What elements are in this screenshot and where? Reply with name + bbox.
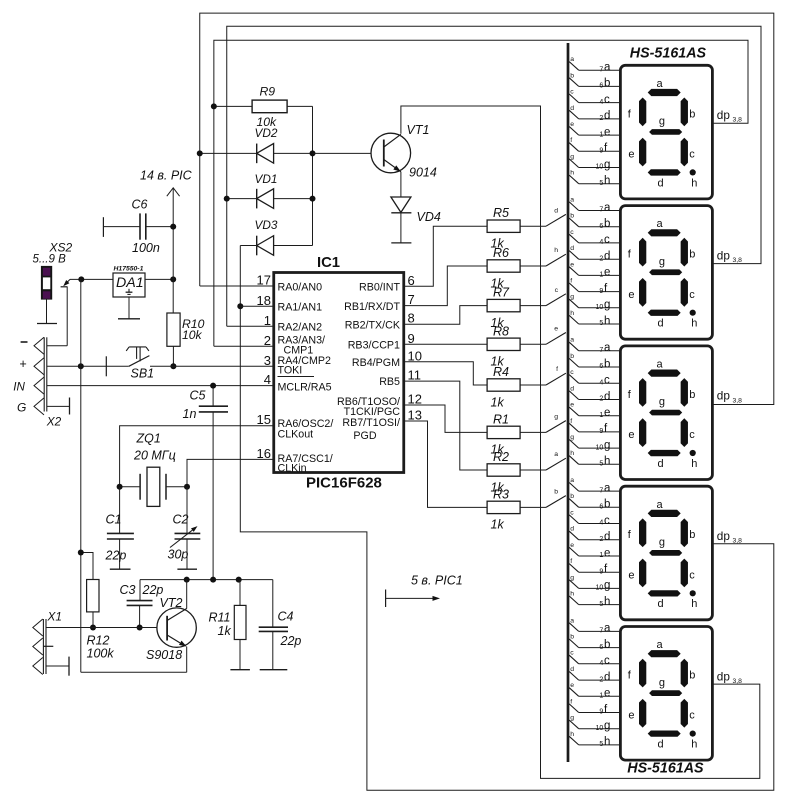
wire pin16 loop to crystal right <box>187 459 274 486</box>
junction VT2 collector / rail <box>184 577 190 583</box>
svg-text:1n: 1n <box>183 407 197 421</box>
svg-text:e: e <box>604 547 610 559</box>
svg-text:2: 2 <box>264 333 271 348</box>
IC U1 box <box>274 273 404 473</box>
wire pin4/IN row (X2 to IC) <box>47 385 274 387</box>
capacitor C2 (trimmer) <box>186 487 188 534</box>
svg-text:VT2: VT2 <box>160 596 183 610</box>
ground bar (X2 G pin) <box>69 398 71 415</box>
plug switch contact arrow <box>65 279 70 284</box>
display HS4 segment f <box>639 518 646 547</box>
display HS1 segment b <box>681 98 688 127</box>
svg-text:VT1: VT1 <box>407 123 430 137</box>
svg-text:6: 6 <box>599 83 603 90</box>
svg-text:8: 8 <box>408 311 415 326</box>
svg-text:e: e <box>570 121 574 128</box>
svg-text:15: 15 <box>257 412 271 427</box>
pin 2 (d) display HS5 <box>579 679 621 681</box>
svg-text:9: 9 <box>599 568 603 575</box>
svg-text:g: g <box>570 294 574 301</box>
svg-text:e: e <box>604 267 610 279</box>
svg-text:14 в. PIC: 14 в. PIC <box>140 169 193 183</box>
pin 6 (b) display HS4 <box>579 506 621 508</box>
svg-text:3,8: 3,8 <box>733 538 743 545</box>
svg-text:f: f <box>570 278 572 285</box>
svg-text:10: 10 <box>596 304 604 311</box>
svg-text:h: h <box>691 177 697 189</box>
svg-text:e: e <box>604 407 610 419</box>
svg-text:XS2: XS2 <box>49 241 73 255</box>
wire plug contact to minus pin <box>66 287 68 346</box>
display HS4 segment a <box>648 510 681 517</box>
svg-text:5...9 В: 5...9 В <box>33 254 67 266</box>
svg-text:b: b <box>604 358 610 370</box>
resistor R1 <box>487 426 520 438</box>
transistor VT2 <box>157 608 196 647</box>
svg-text:R5: R5 <box>493 206 509 220</box>
svg-text:c: c <box>555 287 559 294</box>
pin 10 (g) display HS3 <box>579 447 621 449</box>
display HS3 segment c <box>681 418 688 447</box>
svg-text:a: a <box>604 202 611 214</box>
pin X2 IN <box>34 377 44 394</box>
wire R3 tap diagonal <box>546 496 566 508</box>
display HS1 (HS-5161AS) body <box>620 65 712 199</box>
svg-text:a: a <box>604 623 611 635</box>
resistor R12 <box>81 553 93 580</box>
svg-text:c: c <box>689 289 695 301</box>
svg-text:7: 7 <box>599 628 603 635</box>
svg-text:e: e <box>628 429 634 441</box>
svg-text:a: a <box>604 342 611 354</box>
svg-text:b: b <box>554 489 558 496</box>
svg-text:10: 10 <box>596 164 604 171</box>
display HS1 segment d <box>648 169 681 175</box>
display HS3 segment a <box>648 370 681 377</box>
svg-text:R9: R9 <box>260 85 276 99</box>
display HS5 segment a <box>648 650 681 657</box>
display HS3 segment g <box>649 410 682 416</box>
wire pin18 (from VD3 junction) <box>240 305 273 307</box>
junction VD2-right / R9 net <box>310 150 316 156</box>
svg-text:a: a <box>570 477 574 484</box>
svg-text:f: f <box>570 558 572 565</box>
svg-text:d: d <box>570 105 574 112</box>
svg-text:e: e <box>570 682 574 689</box>
svg-text:1k: 1k <box>218 624 232 638</box>
resistor R6 <box>487 260 520 272</box>
svg-text:e: e <box>628 710 634 722</box>
svg-text:9: 9 <box>599 288 603 295</box>
svg-text:5: 5 <box>599 180 603 187</box>
svg-text:g: g <box>659 116 665 128</box>
pin 4 (c) display HS4 <box>579 523 621 525</box>
svg-text:3: 3 <box>264 353 271 368</box>
svg-text:h: h <box>604 175 610 187</box>
svg-text:d: d <box>570 526 574 533</box>
svg-text:5 в. PIC1: 5 в. PIC1 <box>411 574 463 588</box>
svg-text:h: h <box>691 598 697 610</box>
pin 5 (h) display HS3 <box>579 463 621 465</box>
junction R12 branch / +rail <box>78 550 84 556</box>
svg-text:e: e <box>628 149 634 161</box>
svg-text:X2: X2 <box>46 414 62 428</box>
junction R11 / rail <box>236 577 242 583</box>
svg-text:e: e <box>604 688 610 700</box>
display HS2 segment b <box>681 238 688 267</box>
svg-text:h: h <box>691 739 697 751</box>
connector X2 body <box>43 337 45 411</box>
svg-text:b: b <box>570 634 574 641</box>
svg-text:IN: IN <box>13 381 25 394</box>
svg-text:d: d <box>658 739 664 751</box>
svg-text:4: 4 <box>264 372 271 387</box>
svg-text:6: 6 <box>599 644 603 651</box>
svg-text:b: b <box>604 218 610 230</box>
display HS1 segment e <box>639 138 646 167</box>
svg-text:11: 11 <box>408 368 422 383</box>
resistor R7 <box>487 299 520 311</box>
ground bar (C2) <box>177 568 197 570</box>
svg-text:VD4: VD4 <box>417 210 441 224</box>
wire R7 tap diagonal <box>546 294 566 306</box>
svg-text:h: h <box>604 315 610 327</box>
svg-text:1k: 1k <box>491 395 505 409</box>
svg-text:g: g <box>554 414 558 421</box>
ground bar (VD4) <box>391 242 411 244</box>
svg-text:9: 9 <box>599 709 603 716</box>
pin X1 middle <box>33 638 43 655</box>
svg-text:h: h <box>604 456 610 468</box>
svg-text:1: 1 <box>264 313 271 328</box>
svg-text:h: h <box>554 247 558 254</box>
wire net RA1/dp4 (VD3 - pin18 - bottom frame - display4 common) <box>240 246 774 791</box>
display HS2 segment d <box>648 310 681 316</box>
wire VT2 emitter to bottom <box>186 647 188 673</box>
pin 4 (c) display HS2 <box>579 242 621 244</box>
wire R6 tap diagonal <box>546 254 566 266</box>
svg-text:18: 18 <box>257 293 271 308</box>
junction VD2-left / RA0 line <box>197 150 203 156</box>
svg-text:R3: R3 <box>493 487 509 501</box>
svg-text:a: a <box>570 337 574 344</box>
svg-text:b: b <box>689 249 695 261</box>
svg-text:e: e <box>570 542 574 549</box>
display HS3 segment f <box>639 378 646 407</box>
connector XS2 plug body <box>41 266 52 300</box>
svg-text:d: d <box>604 531 610 543</box>
svg-text:HS-5161AS: HS-5161AS <box>630 45 707 61</box>
display HS5 (HS-5161AS) body <box>620 627 712 761</box>
junction crystal-left / pin15 loop <box>117 484 123 490</box>
svg-text:VD1: VD1 <box>255 172 278 186</box>
wire pin3 row (SB1 to IC) <box>173 365 273 367</box>
svg-text:c: c <box>570 509 574 516</box>
svg-text:h: h <box>570 591 574 598</box>
svg-text:h: h <box>570 170 574 177</box>
svg-text:X1: X1 <box>47 610 62 624</box>
junction DA1 input / +rail <box>78 276 84 282</box>
switch SB1 <box>105 356 107 376</box>
svg-text:9: 9 <box>408 331 415 346</box>
svg-text:R12: R12 <box>87 634 110 648</box>
svg-text:b: b <box>604 639 610 651</box>
pin 7 (a) display HS4 <box>579 490 621 492</box>
display HS1 segment dot h <box>690 169 696 175</box>
svg-text:f: f <box>570 137 572 144</box>
ground bar (DA1) <box>118 318 140 320</box>
svg-text:RA0/AN0: RA0/AN0 <box>278 281 323 293</box>
wire pin10 to R4 <box>404 362 487 385</box>
svg-text:d: d <box>604 110 610 122</box>
svg-text:100k: 100k <box>87 647 115 661</box>
wire DA1 ground lead <box>128 297 130 319</box>
svg-text:f: f <box>556 366 558 373</box>
svg-text:d: d <box>658 318 664 330</box>
display HS4 segment dot h <box>690 590 696 596</box>
pin 2 (d) display HS4 <box>579 539 621 541</box>
svg-text:b: b <box>570 72 574 79</box>
display HS2 (HS-5161AS) body <box>620 206 712 340</box>
display HS3 segment e <box>639 418 646 447</box>
svg-text:b: b <box>689 670 695 682</box>
svg-text:22p: 22p <box>105 549 127 563</box>
display HS3 segment dot h <box>690 450 696 456</box>
wire R1 tap diagonal <box>546 421 566 433</box>
display HS2 segment g <box>649 269 682 275</box>
pin 6 (b) display HS5 <box>579 647 621 649</box>
pin 5 (h) display HS1 <box>579 183 621 185</box>
pin 10 (g) display HS5 <box>579 728 621 730</box>
svg-text:g: g <box>604 299 610 311</box>
wire net RA2/dp2 (pin1 - top frame - display2 common) <box>227 26 761 326</box>
wire XS2 pin lead <box>46 299 48 324</box>
svg-text:a: a <box>570 56 574 63</box>
wire pin7 to R6 <box>404 266 487 306</box>
svg-text:4: 4 <box>599 520 603 527</box>
junction DA1 output / 14v rail <box>170 276 176 282</box>
resistor R2 <box>487 464 520 476</box>
svg-text:e: e <box>628 289 634 301</box>
pin 9 (f) display HS1 <box>579 150 621 152</box>
display HS2 segment e <box>639 278 646 307</box>
svg-text:c: c <box>570 369 574 376</box>
svg-text:a: a <box>657 78 664 90</box>
resistor R11 <box>239 580 241 606</box>
ground bar (X1) <box>68 657 70 676</box>
svg-text:6: 6 <box>599 363 603 370</box>
svg-text:RB4/PGM: RB4/PGM <box>352 357 400 369</box>
ground bar (R11) <box>230 669 250 671</box>
svg-text:H17550-1: H17550-1 <box>114 265 144 272</box>
svg-text:10: 10 <box>596 585 604 592</box>
pin name MCLR/RA5 with overline <box>278 376 315 378</box>
svg-text:3,8: 3,8 <box>733 117 743 124</box>
pin 9 (f) display HS4 <box>579 571 621 573</box>
svg-text:b: b <box>570 213 574 220</box>
pin 5 (h) display HS2 <box>579 323 621 325</box>
svg-text:TOKI: TOKI <box>278 365 303 377</box>
svg-text:a: a <box>657 639 664 651</box>
svg-text:7: 7 <box>599 66 603 73</box>
svg-text:a: a <box>604 62 611 74</box>
svg-text:G: G <box>17 400 26 414</box>
display HS2 segment dot h <box>690 310 696 316</box>
svg-text:1: 1 <box>599 693 603 700</box>
svg-text:2: 2 <box>599 536 603 543</box>
pin X2 minus <box>34 337 44 354</box>
display HS5 segment c <box>681 699 688 728</box>
junction VD1-right / R9 net <box>310 196 316 202</box>
svg-text:e: e <box>554 326 558 333</box>
svg-text:R1: R1 <box>493 412 509 426</box>
svg-text:g: g <box>570 434 574 441</box>
svg-text:5: 5 <box>599 741 603 748</box>
svg-text:b: b <box>570 353 574 360</box>
svg-text:c: c <box>570 650 574 657</box>
wire pin13 to R3 <box>404 421 487 507</box>
svg-text:h: h <box>691 458 697 470</box>
svg-text:R6: R6 <box>493 246 509 260</box>
wire XS2 contact to DA1 input <box>70 278 113 280</box>
svg-text:d: d <box>570 385 574 392</box>
diode VD1 <box>227 198 257 200</box>
svg-text:dp: dp <box>717 669 731 683</box>
pin 10 (g) display HS4 <box>579 587 621 589</box>
svg-text:6: 6 <box>408 273 415 288</box>
diode VD3 <box>240 245 256 247</box>
display HS2 segment c <box>681 278 688 307</box>
svg-text:1k: 1k <box>491 518 505 532</box>
display HS5 segment dot h <box>690 731 696 737</box>
svg-text:b: b <box>689 389 695 401</box>
svg-text:g: g <box>604 580 610 592</box>
svg-text:1: 1 <box>599 552 603 559</box>
pin 2 (d) display HS2 <box>579 258 621 260</box>
svg-text:10: 10 <box>596 444 604 451</box>
svg-text:7: 7 <box>599 207 603 214</box>
svg-text:R11: R11 <box>209 611 231 625</box>
svg-text:10k: 10k <box>182 328 203 342</box>
svg-text:5: 5 <box>599 601 603 608</box>
ground glyph inside DA1 <box>128 289 130 292</box>
svg-text:c: c <box>604 94 610 106</box>
svg-text:4: 4 <box>599 239 603 246</box>
svg-text:22p: 22p <box>142 583 164 597</box>
svg-text:R2: R2 <box>493 450 509 464</box>
svg-text:c: c <box>689 710 695 722</box>
connector X1 body <box>42 619 44 674</box>
svg-text:a: a <box>570 617 574 624</box>
svg-text:c: c <box>689 429 695 441</box>
display HS5 segment f <box>639 659 646 688</box>
svg-text:C1: C1 <box>106 513 122 527</box>
svg-text:9: 9 <box>599 428 603 435</box>
svg-text:+: + <box>19 357 26 371</box>
wire pin1 (to RA2 line) <box>227 325 274 327</box>
display HS5 segment e <box>639 699 646 728</box>
junction +rail / X2 plus row <box>78 363 84 369</box>
svg-text:d: d <box>658 598 664 610</box>
svg-text:2: 2 <box>599 115 603 122</box>
svg-text:4: 4 <box>599 379 603 386</box>
svg-text:DA1: DA1 <box>116 275 144 291</box>
junction R12 / X1 row <box>90 625 96 631</box>
display HS5 segment d <box>648 731 681 737</box>
display HS4 segment c <box>681 559 688 588</box>
svg-text:dp: dp <box>717 108 731 122</box>
wire net VT1-collector/dp5 (bottom frame - display5 common) <box>401 106 760 778</box>
wire net RA3/dp1 (pin2 - top frame - display1 common) <box>214 40 748 346</box>
svg-text:C6: C6 <box>132 198 148 212</box>
svg-text:1: 1 <box>599 272 603 279</box>
svg-text:a: a <box>657 359 664 371</box>
wire pin8 to R7 <box>404 306 487 325</box>
capacitor C1 <box>119 487 121 534</box>
pin 1 (e) display HS5 <box>579 695 621 697</box>
wire net RA0/dp3 (pin17 - top frame - display3 common) <box>200 13 774 404</box>
svg-text:20 МГц: 20 МГц <box>133 449 176 463</box>
capacitor C6 <box>102 217 104 237</box>
svg-text:e: e <box>628 569 634 581</box>
pin 5 (h) display HS5 <box>579 744 621 746</box>
pin 7 (a) display HS1 <box>579 69 621 71</box>
junction C5 / rail <box>210 577 216 583</box>
wire segment bus <box>567 43 570 762</box>
svg-text:PGD: PGD <box>353 430 376 442</box>
junction VD3 / pin18 wire <box>237 303 243 309</box>
svg-text:c: c <box>604 234 610 246</box>
svg-text:h: h <box>570 450 574 457</box>
pin 6 (b) display HS2 <box>579 226 621 228</box>
svg-text:h: h <box>570 731 574 738</box>
svg-text:b: b <box>570 493 574 500</box>
ground bar (C4) <box>260 669 288 671</box>
svg-text:HS-5161AS: HS-5161AS <box>627 760 704 776</box>
svg-text:e: e <box>570 261 574 268</box>
svg-text:d: d <box>604 251 610 263</box>
svg-text:RB5: RB5 <box>379 376 400 388</box>
diode VD4 <box>391 197 411 212</box>
display HS4 (HS-5161AS) body <box>620 486 712 620</box>
svg-text:g: g <box>604 720 610 732</box>
resistor R4 <box>487 379 520 391</box>
svg-text:CLKin: CLKin <box>278 462 307 474</box>
svg-text:e: e <box>604 126 610 138</box>
svg-text:C3: C3 <box>120 583 136 597</box>
svg-text:ZQ1: ZQ1 <box>136 432 161 446</box>
svg-text:5: 5 <box>599 320 603 327</box>
svg-text:g: g <box>659 677 665 689</box>
svg-text:10: 10 <box>408 348 422 363</box>
svg-text:IC1: IC1 <box>317 255 340 271</box>
wire VT2 collector <box>186 580 188 609</box>
pin 6 (b) display HS3 <box>579 366 621 368</box>
svg-text:C5: C5 <box>190 389 206 403</box>
svg-text:1: 1 <box>599 412 603 419</box>
svg-text:g: g <box>570 715 574 722</box>
wire DA1 output <box>145 278 173 280</box>
svg-text:a: a <box>604 482 611 494</box>
svg-text:g: g <box>659 537 665 549</box>
svg-text:c: c <box>604 655 610 667</box>
svg-text:6: 6 <box>599 504 603 511</box>
display HS1 segment a <box>648 89 681 96</box>
svg-text:PIC16F628: PIC16F628 <box>306 474 382 491</box>
svg-text:d: d <box>604 671 610 683</box>
display HS1 segment f <box>639 98 646 127</box>
pin 4 (c) display HS5 <box>579 663 621 665</box>
